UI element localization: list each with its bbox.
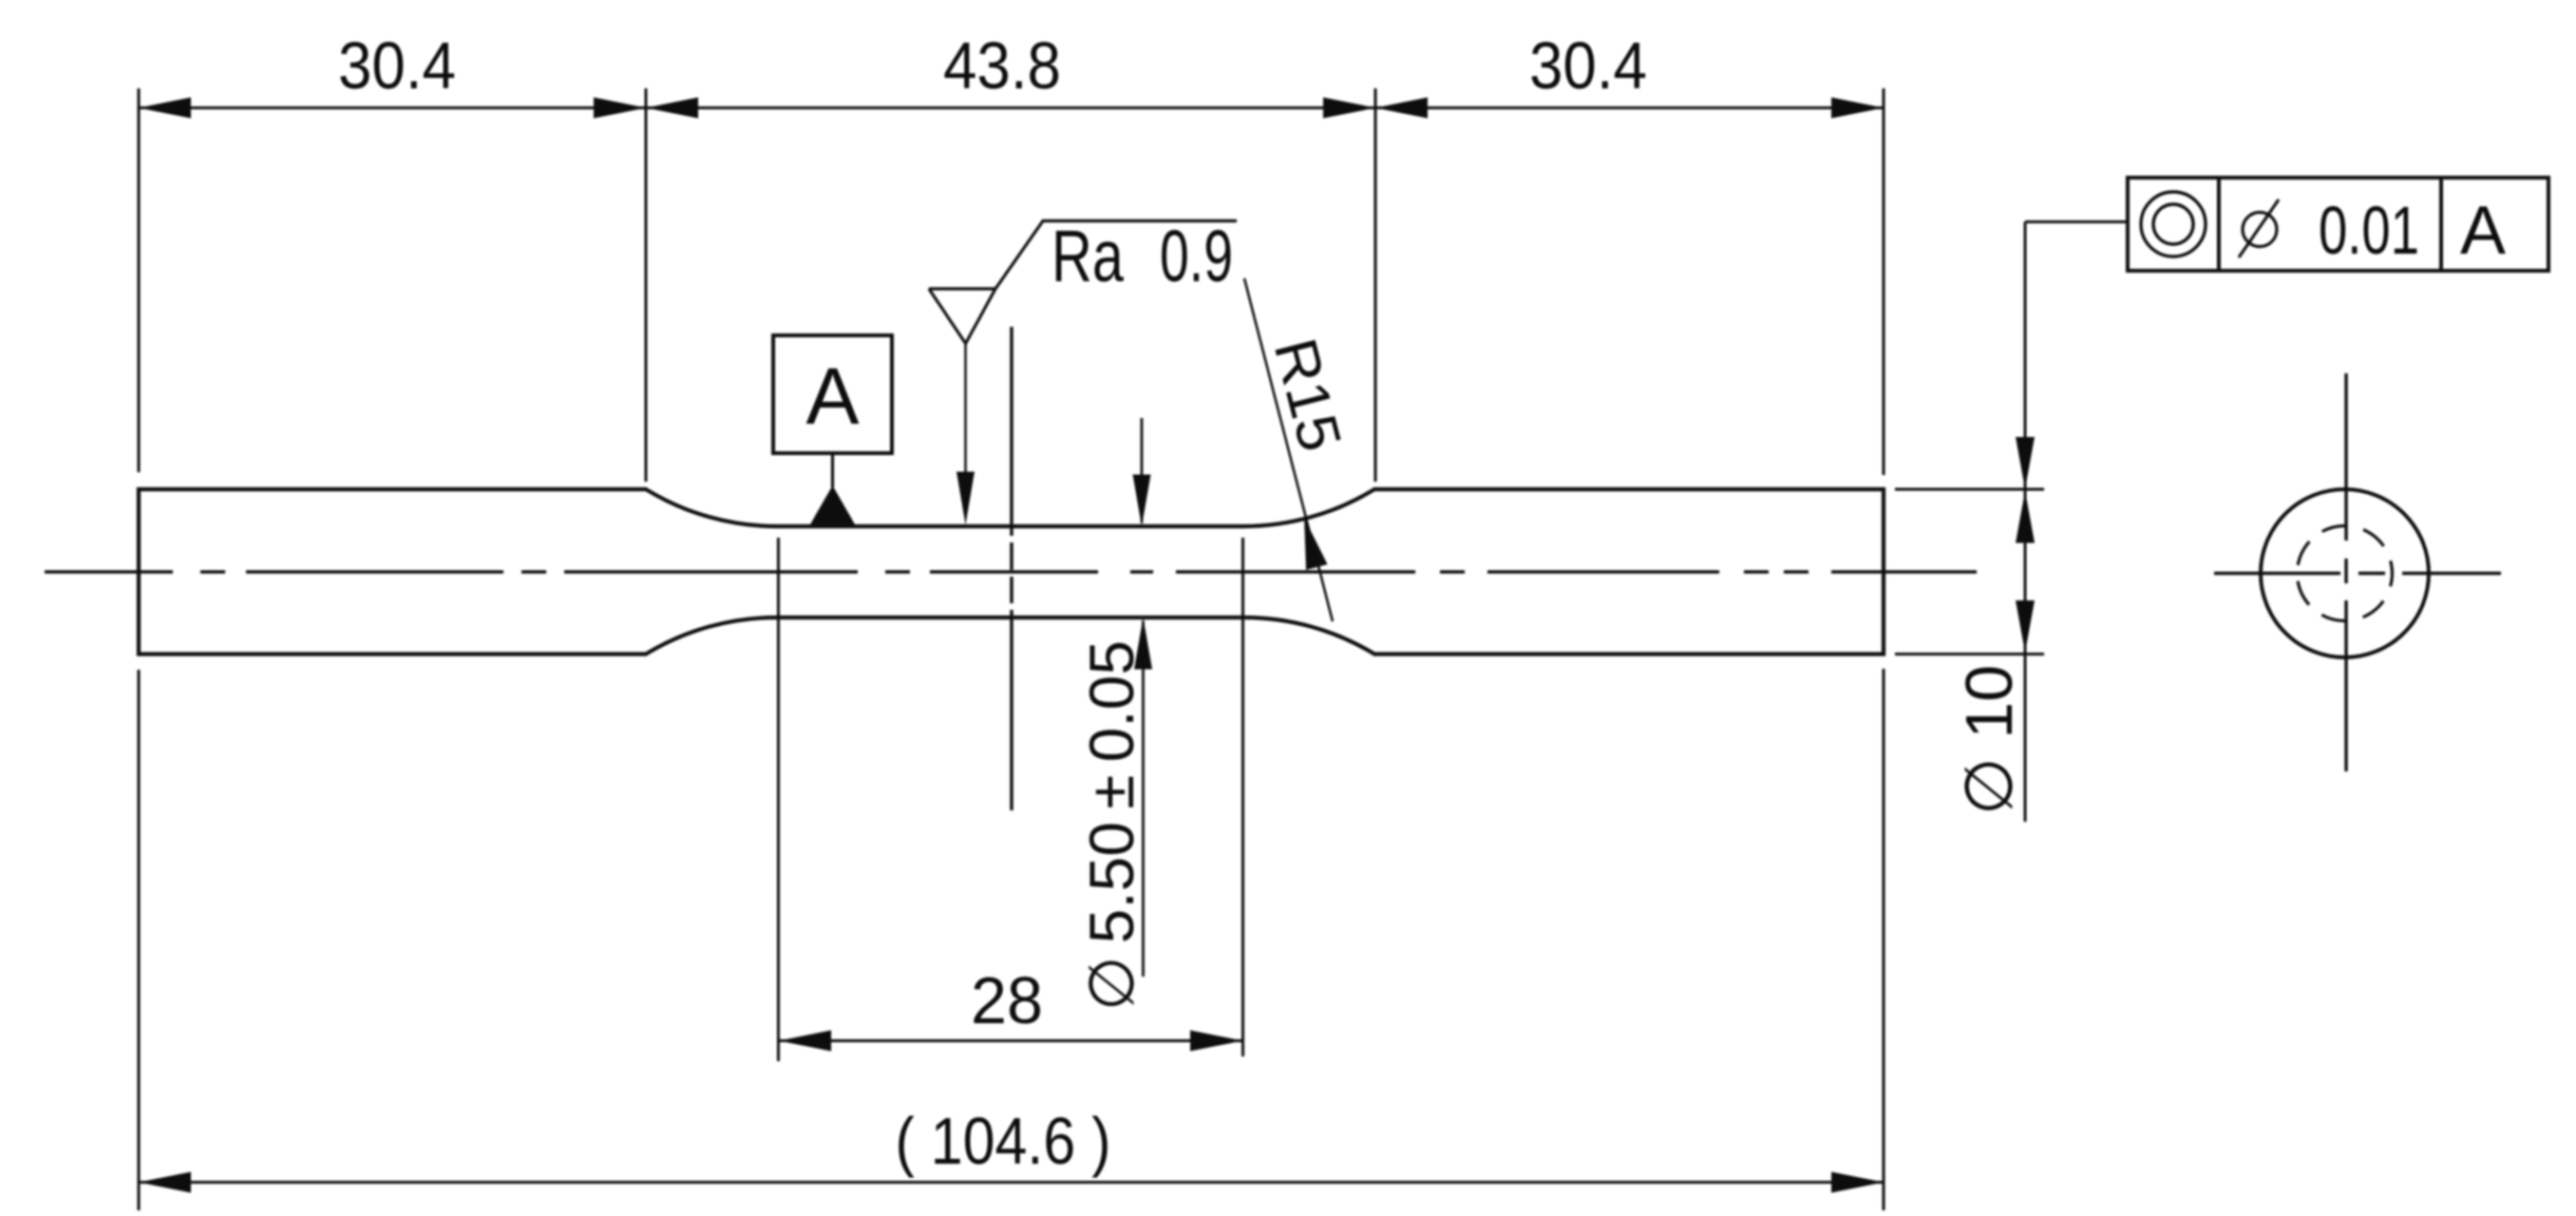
concentricity symbol inner circle	[2153, 204, 2193, 244]
end view horizontal centerline	[2214, 572, 2501, 575]
dia 5.50 lower dim line	[1142, 621, 1145, 978]
R15 leader line	[1244, 278, 1333, 621]
top dimension line	[139, 106, 1884, 109]
surface finish leader arrow	[957, 472, 975, 525]
surface finish leader line	[964, 344, 967, 475]
datum leader	[831, 453, 834, 487]
tolerance dia symbol	[2239, 199, 2279, 257]
svg-text:A: A	[805, 351, 859, 441]
svg-text:43.8: 43.8	[943, 28, 1061, 103]
concentricity symbol outer circle	[2141, 192, 2206, 256]
top extension line x=1983	[1883, 88, 1885, 475]
end view dashed circle	[2298, 526, 2393, 621]
dia 5.50 upper arrow	[1133, 475, 1151, 527]
horizontal centerline of specimen	[45, 570, 1977, 574]
dia 5.50 lower arrow	[1134, 617, 1152, 670]
28 extension line right	[1241, 538, 1244, 1056]
datum triangle	[810, 485, 855, 524]
tolerance frame leader	[2025, 220, 2128, 223]
104.6 extension line right	[1883, 669, 1885, 1210]
dia 10 extension line top	[1895, 488, 2044, 491]
svg-text:Ra: Ra	[1051, 216, 1124, 297]
svg-text:30.4: 30.4	[338, 28, 456, 103]
dia 10 extension line bottom	[1895, 653, 2044, 655]
arrows top dimension	[139, 98, 1884, 119]
28 dimension line	[779, 1039, 1242, 1042]
top extension line x=1448	[1374, 88, 1377, 482]
surface finish symbol	[929, 221, 1237, 344]
svg-text:0.9: 0.9	[1160, 216, 1233, 297]
datum A box	[773, 335, 892, 453]
end view outer circle	[2261, 489, 2429, 657]
vertical centerline at gauge middle	[1010, 327, 1013, 810]
svg-text:∅ 10: ∅ 10	[1952, 665, 2026, 815]
svg-text:( 104.6 ): ( 104.6 )	[896, 1104, 1111, 1178]
dia 10 arrows	[2016, 437, 2035, 653]
dia 10 dimension line	[2024, 222, 2027, 823]
104.6 arrows	[139, 1172, 1884, 1193]
end view vertical centerline	[2344, 373, 2347, 771]
svg-text:30.4: 30.4	[1529, 28, 1647, 103]
104.6 dimension line	[139, 1181, 1884, 1184]
dia 5.50 upper dim line	[1141, 418, 1144, 522]
svg-text:0.01: 0.01	[2319, 194, 2419, 269]
28 extension line left	[777, 538, 780, 1061]
tolerance frame box	[2128, 178, 2548, 271]
tolerance frame divider 2	[2439, 178, 2443, 271]
svg-text:∅ 5.50 ± 0.05: ∅ 5.50 ± 0.05	[1076, 640, 1146, 1011]
28 arrows	[779, 1031, 1242, 1052]
top extension line x=680	[645, 88, 648, 482]
R15 arrow	[1304, 518, 1328, 570]
specimen outline	[139, 489, 1884, 655]
svg-text:28: 28	[971, 963, 1043, 1037]
top extension line x=146	[138, 88, 141, 472]
tolerance frame divider 1	[2217, 178, 2221, 271]
svg-text:A: A	[2460, 193, 2506, 269]
104.6 extension line left	[138, 670, 141, 1210]
